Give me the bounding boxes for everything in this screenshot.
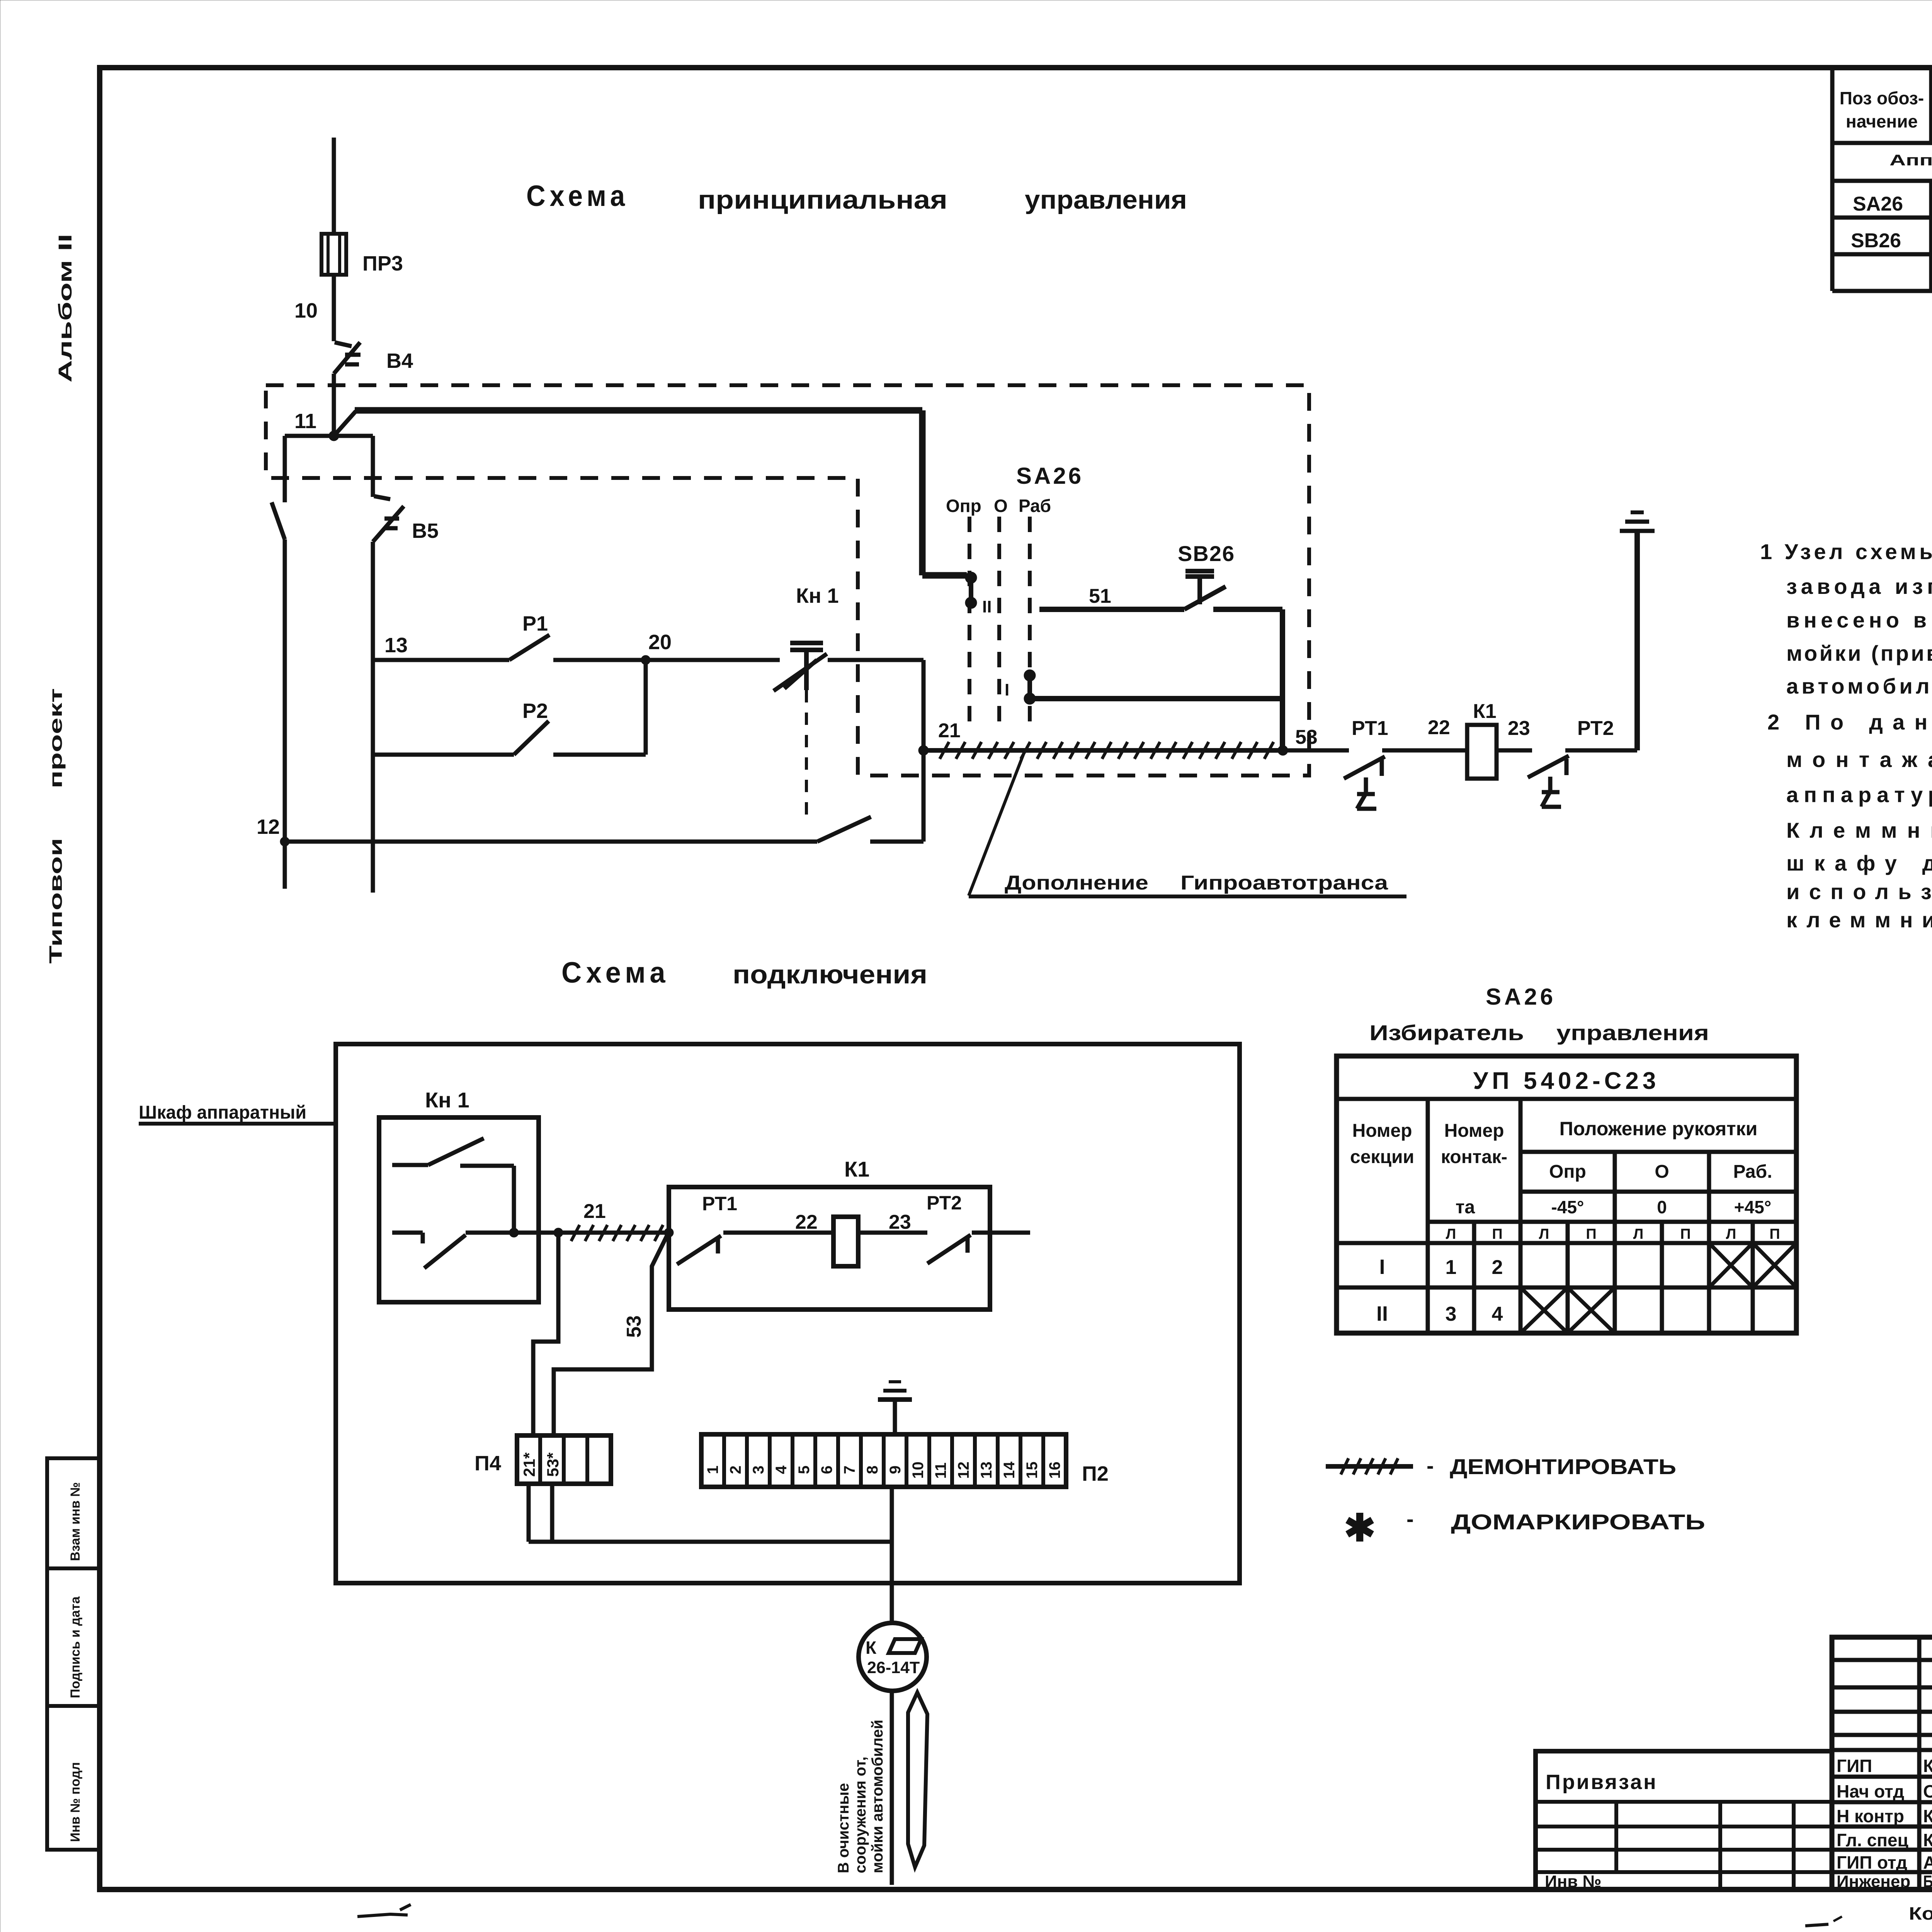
svg-text:секции: секции	[1350, 1147, 1414, 1167]
svg-text:+45°: +45°	[1734, 1197, 1771, 1217]
svg-text:Огурцов: Огурцов	[1923, 1781, 1932, 1801]
svg-text:ГИП отд: ГИП отд	[1837, 1852, 1907, 1872]
svg-text:Шкаф аппаратный: Шкаф аппаратный	[139, 1102, 306, 1123]
svg-text:П2: П2	[1082, 1462, 1109, 1485]
svg-text:Л: Л	[1726, 1226, 1736, 1242]
svg-text:контак-: контак-	[1441, 1147, 1507, 1167]
svg-text:Н контр: Н контр	[1837, 1806, 1904, 1826]
svg-text:21*: 21*	[520, 1452, 538, 1477]
svg-text:ДОМАРКИРОВАТЬ: ДОМАРКИРОВАТЬ	[1451, 1510, 1705, 1534]
svg-text:1: 1	[704, 1466, 721, 1474]
svg-text:Р2: Р2	[522, 699, 548, 723]
svg-text:УП 5402-С23: УП 5402-С23	[1473, 1068, 1660, 1094]
svg-text:10: 10	[294, 299, 318, 322]
svg-text:-45°: -45°	[1551, 1197, 1584, 1217]
svg-text:4: 4	[1492, 1303, 1503, 1325]
svg-text:Альбом II: Альбом II	[55, 234, 76, 383]
svg-text:Положение рукоятки: Положение рукоятки	[1560, 1118, 1758, 1139]
svg-text:Раб: Раб	[1019, 496, 1051, 516]
svg-text:мойки автомобилей: мойки автомобилей	[869, 1719, 886, 1873]
svg-text:9: 9	[887, 1466, 904, 1474]
svg-text:Л: Л	[1633, 1226, 1644, 1242]
svg-text:П: П	[1680, 1226, 1690, 1242]
svg-text:15: 15	[1024, 1462, 1041, 1479]
svg-text:-: -	[1427, 1453, 1434, 1478]
svg-text:подключения: подключения	[733, 960, 927, 989]
svg-text:Гл. спец: Гл. спец	[1837, 1830, 1908, 1850]
svg-text:13: 13	[384, 634, 408, 657]
svg-text:Типовои проект: Типовои проект	[46, 688, 66, 964]
svg-text:Кирсанов: Кирсанов	[1923, 1756, 1932, 1776]
svg-text:II: II	[1376, 1302, 1388, 1325]
svg-text:16: 16	[1046, 1462, 1063, 1479]
svg-text:12: 12	[257, 815, 280, 838]
svg-text:Гипроавтотранса: Гипроавтотранса	[1180, 872, 1388, 894]
svg-text:РТ1: РТ1	[702, 1193, 737, 1214]
svg-text:22: 22	[1428, 716, 1450, 739]
svg-text:Поз обоз-: Поз обоз-	[1840, 88, 1924, 108]
svg-text:Афонина: Афонина	[1923, 1852, 1932, 1872]
svg-text:К1: К1	[844, 1157, 869, 1181]
svg-text:ДЕМОНТИРОВАТЬ: ДЕМОНТИРОВАТЬ	[1450, 1454, 1676, 1479]
svg-text:Кн 1: Кн 1	[425, 1088, 469, 1112]
svg-text:П: П	[1769, 1226, 1780, 1242]
svg-text:20: 20	[648, 631, 672, 654]
svg-text:Кн 1: Кн 1	[796, 584, 839, 607]
svg-text:11: 11	[294, 410, 316, 433]
svg-text:Кузнецов: Кузнецов	[1923, 1830, 1932, 1850]
svg-text:21: 21	[938, 719, 961, 742]
svg-text:Номер: Номер	[1352, 1121, 1412, 1141]
svg-text:П: П	[1492, 1226, 1502, 1242]
svg-text:Кузнецов: Кузнецов	[1923, 1806, 1932, 1826]
svg-text:Л: Л	[1539, 1226, 1549, 1242]
svg-text:22: 22	[795, 1211, 818, 1233]
svg-text:I: I	[1005, 680, 1009, 699]
svg-text:I: I	[1379, 1255, 1385, 1279]
svg-text:управления: управления	[1556, 1020, 1709, 1045]
svg-text:Номер: Номер	[1444, 1121, 1504, 1141]
svg-text:2: 2	[727, 1466, 744, 1474]
svg-text:12: 12	[955, 1462, 972, 1479]
svg-text:клеммников , установленных в: клеммников , установленных в шкафу	[1786, 908, 1932, 932]
svg-text:1: 1	[1446, 1256, 1457, 1279]
svg-text:3: 3	[750, 1466, 767, 1474]
svg-text:ПР3: ПР3	[362, 252, 403, 275]
svg-text:ГИП: ГИП	[1837, 1756, 1872, 1776]
svg-text:21: 21	[583, 1200, 606, 1223]
svg-text:Избиратель: Избиратель	[1369, 1020, 1524, 1045]
svg-text:10: 10	[910, 1462, 927, 1479]
svg-text:11: 11	[932, 1463, 949, 1479]
svg-text:SA26: SA26	[1853, 193, 1903, 215]
svg-text:РТ2: РТ2	[1577, 717, 1614, 740]
svg-text:РТ2: РТ2	[927, 1192, 962, 1214]
svg-text:та: та	[1456, 1197, 1475, 1218]
svg-text:1 Узел схемы выполнен на основ: 1 Узел схемы выполнен на основании черте…	[1760, 539, 1932, 564]
svg-text:В4: В4	[386, 349, 413, 372]
svg-text:П4: П4	[474, 1452, 501, 1475]
svg-text:4: 4	[773, 1465, 790, 1474]
svg-text:II: II	[982, 597, 992, 616]
svg-text:К: К	[866, 1638, 877, 1658]
svg-text:В очистные: В очистные	[835, 1783, 852, 1873]
svg-text:SA26: SA26	[1016, 463, 1083, 489]
svg-text:14: 14	[1001, 1461, 1018, 1479]
svg-text:8: 8	[864, 1466, 881, 1474]
svg-text:Привязан: Привязан	[1546, 1770, 1658, 1794]
svg-text:SB26: SB26	[1178, 541, 1235, 566]
svg-text:Инженер: Инженер	[1837, 1872, 1910, 1891]
svg-text:Дополнение: Дополнение	[1005, 872, 1148, 894]
svg-text:сооружения от,: сооружения от,	[852, 1757, 869, 1873]
svg-text:Копировал: Копировал	[1909, 1903, 1932, 1923]
svg-text:автомобилей: автомобилей	[1786, 674, 1932, 698]
svg-text:53*: 53*	[544, 1452, 562, 1477]
svg-text:Опр: Опр	[946, 496, 981, 516]
svg-text:начение: начение	[1846, 111, 1918, 131]
svg-text:-: -	[1406, 1507, 1414, 1531]
svg-text:П: П	[1586, 1226, 1596, 1242]
svg-text:✱: ✱	[1344, 1507, 1376, 1549]
svg-text:51: 51	[1089, 585, 1111, 607]
svg-text:Опр: Опр	[1549, 1162, 1586, 1182]
svg-text:3: 3	[1446, 1303, 1457, 1325]
svg-text:Подпись и дата: Подпись и дата	[68, 1596, 83, 1698]
svg-text:Р1: Р1	[522, 612, 548, 635]
svg-text:13: 13	[978, 1462, 995, 1479]
svg-text:53: 53	[1295, 726, 1318, 748]
svg-text:Нач отд: Нач отд	[1837, 1781, 1904, 1801]
svg-text:принципиальная: принципиальная	[698, 185, 947, 214]
svg-text:Инв №: Инв №	[1545, 1872, 1602, 1891]
svg-text:Раб.: Раб.	[1733, 1162, 1772, 1182]
svg-text:6: 6	[818, 1466, 835, 1474]
svg-text:SB26: SB26	[1851, 230, 1901, 252]
svg-text:Схема: Схема	[561, 956, 670, 989]
svg-text:О: О	[994, 496, 1008, 516]
svg-text:Л: Л	[1446, 1226, 1456, 1242]
svg-text:РТ1: РТ1	[1352, 717, 1388, 740]
svg-text:53: 53	[623, 1315, 645, 1338]
svg-text:SA26: SA26	[1486, 984, 1556, 1010]
svg-text:Взам инв №: Взам инв №	[68, 1482, 83, 1561]
svg-text:26-14Т: 26-14Т	[867, 1658, 920, 1677]
svg-text:0: 0	[1657, 1197, 1667, 1217]
svg-text:5: 5	[796, 1466, 813, 1474]
svg-text:управления: управления	[1025, 185, 1187, 214]
svg-text:О: О	[1655, 1162, 1669, 1182]
svg-text:Инв № подл: Инв № подл	[68, 1762, 83, 1842]
svg-text:Схема: Схема	[526, 180, 629, 213]
svg-text:2: 2	[1492, 1256, 1503, 1279]
svg-text:Бобылькова: Бобылькова	[1923, 1872, 1932, 1891]
svg-text:7: 7	[841, 1466, 858, 1474]
svg-text:23: 23	[1508, 717, 1530, 740]
svg-text:К1: К1	[1473, 700, 1497, 723]
svg-text:Аппаратура, установленная до: Аппаратура, установленная дополнительно …	[1889, 152, 1932, 169]
svg-text:23: 23	[889, 1211, 911, 1233]
svg-text:В5: В5	[412, 519, 439, 543]
